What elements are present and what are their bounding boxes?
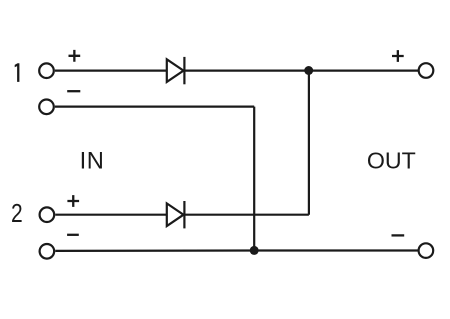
polarity - input 2: [67, 234, 79, 236]
polarity + input 1: [69, 50, 81, 62]
wire input 2+ to diode V2 anode: [55, 214, 166, 216]
diode V2: [167, 201, 185, 228]
diode V1: [167, 57, 185, 84]
wire input 1- vertical drop to node B: [253, 107, 255, 251]
polarity + output: [392, 50, 404, 62]
svg-text:OUT: OUT: [367, 148, 416, 174]
input terminal 1+: [39, 63, 54, 78]
svg-text:IN: IN: [80, 148, 105, 174]
input terminal 1-: [39, 100, 54, 115]
wire diode V2 cathode horizontal: [184, 214, 309, 216]
wire node A to output plus terminal: [309, 69, 418, 71]
wire input 1- horizontal: [55, 105, 254, 107]
polarity - output: [392, 234, 405, 236]
input terminal 2-: [40, 244, 55, 259]
terminal label 1: [15, 63, 20, 82]
polarity - input 1: [67, 90, 80, 92]
wire diode V2 vertical riser to node A: [308, 71, 310, 215]
wire input 1+ to diode V1 anode: [55, 69, 167, 71]
svg-text:2: 2: [11, 199, 23, 228]
output terminal +: [419, 63, 434, 78]
node A junction dot: [304, 66, 313, 75]
output terminal -: [419, 243, 434, 258]
wire diode V1 cathode to node A: [184, 69, 308, 71]
node B junction dot: [250, 246, 259, 255]
input terminal 2+: [40, 207, 55, 222]
wire input 2- to node B: [55, 249, 254, 252]
wire node B to output minus terminal: [254, 249, 418, 251]
polarity + input 2: [67, 195, 79, 207]
